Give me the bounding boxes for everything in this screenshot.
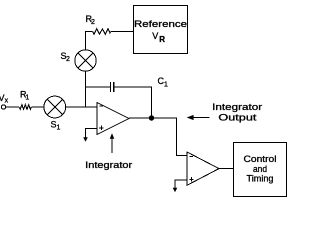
svg-text:1: 1 [164,81,168,88]
svg-text:x: x [5,98,9,105]
wire C1 to output node [115,87,152,118]
resistor R1 [19,90,31,110]
svg-text:2: 2 [91,19,95,26]
capacitor C1 [111,76,169,92]
ground arrow at U1 + input [83,137,88,142]
wire Vx to R1 [6,106,19,108]
wire feedback tap to C1 [86,86,111,88]
svg-text:Integrator: Integrator [212,102,262,112]
svg-text:Reference: Reference [134,19,187,29]
block Control and Timing [234,143,287,197]
svg-text:2: 2 [66,56,70,63]
ground arrow at U2 + input [173,188,178,193]
switch S2 [61,50,97,71]
wire comparator output to Control box [219,168,234,170]
svg-text:V: V [152,31,158,41]
block Reference VR [134,6,188,54]
wire S1 to op-amp inverting input [65,106,97,108]
op-amp U2 comparator [187,152,219,185]
node junction S2 branch on input wire [85,71,87,107]
op-amp U1 integrator [97,103,129,135]
svg-text:Control: Control [244,154,277,164]
wire comparator non-inverting stub [175,180,187,189]
resistor R2 [86,14,111,34]
svg-text:R: R [159,35,165,44]
svg-text:1: 1 [57,124,61,131]
wire S2 up to R2 [86,32,93,50]
switch S1 [44,96,66,131]
node Vx input terminal [0,93,9,109]
label Integrator Output with left arrow [187,102,263,123]
svg-text:Output: Output [218,112,257,122]
node output junction dot [149,115,154,120]
wire R2 to Reference box [111,31,133,33]
svg-text:and: and [253,164,267,174]
wire U1 output to comparator [129,118,187,155]
label Integrator with up arrow [85,133,132,170]
svg-text:Integrator: Integrator [85,160,132,170]
wire non-inverting input stub [86,129,98,138]
wire R1 to S1 [32,106,45,108]
svg-text:Timing: Timing [247,174,274,184]
svg-text:1: 1 [25,95,29,102]
